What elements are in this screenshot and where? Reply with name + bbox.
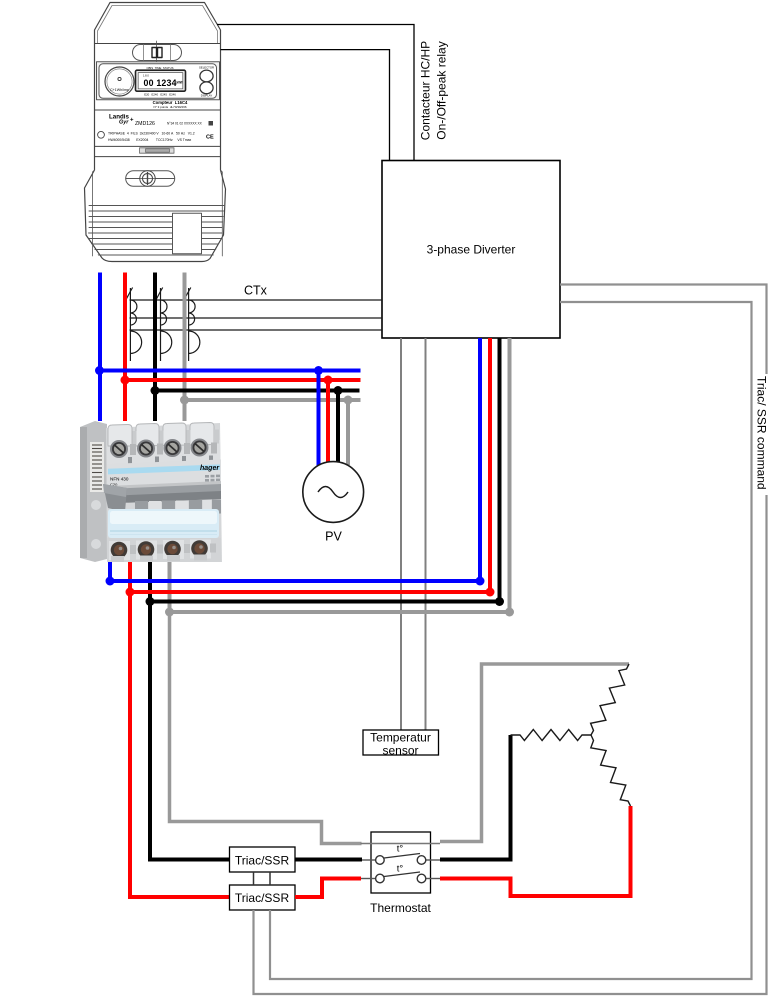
node: gray junction lower left	[165, 608, 174, 617]
Temperatur sensor box B1	[363, 730, 439, 758]
node: gray junction at meter drop	[180, 396, 189, 405]
wire: gray bus upper	[185, 398, 361, 402]
wire: blue bus upper	[99, 369, 361, 373]
svg-text:NFN 430: NFN 430	[110, 477, 129, 482]
svg-text:CTx: CTx	[244, 284, 268, 298]
heater resistor R3 (bottom right)	[591, 735, 631, 806]
svg-text:sensor: sensor	[382, 744, 418, 758]
wire: gray thermostat to heater	[440, 664, 629, 842]
node: red junction lower right	[486, 588, 495, 597]
node: blue junction at PV tap	[314, 366, 323, 375]
wire: SSR command outer loop	[254, 285, 767, 995]
svg-text:DISPLAY: DISPLAY	[201, 94, 213, 98]
wire: red bus lower	[130, 590, 490, 594]
node: red junction lower left	[126, 588, 135, 597]
wire: red drop to PV	[326, 380, 330, 463]
svg-text:Temperatur: Temperatur	[370, 731, 431, 745]
svg-text:E20 E240 E245 E246: E20 E240 E245 E246	[144, 92, 176, 96]
wire: gray drop to PV	[346, 400, 350, 465]
3-phase Diverter box U1	[382, 161, 560, 339]
thermostat capillary line	[361, 843, 441, 845]
node: black junction at meter drop	[151, 386, 160, 395]
wire: SSR command inner loop	[270, 302, 752, 979]
circuit breaker Q1 (Hager 4-pole MCB photo)	[80, 421, 222, 562]
wire: black bus lower	[150, 600, 500, 604]
wire: red breaker bottom stub	[128, 562, 132, 592]
wire: blue diverter output drop	[478, 338, 482, 581]
CT sense line 2	[130, 317, 383, 319]
wire: black phase L2 meter to breaker	[153, 273, 157, 422]
Triac/SSR box 2	[230, 885, 296, 910]
node: blue junction lower right	[476, 577, 485, 586]
svg-text:t°: t°	[397, 844, 404, 855]
svg-text:3-phase Diverter: 3-phase Diverter	[427, 243, 516, 257]
node: blue junction at meter drop	[95, 366, 104, 375]
current transformer CT2	[156, 288, 172, 362]
wire: blue phase N meter to breaker	[98, 273, 102, 422]
svg-text:OBIS TIME STATUS: OBIS TIME STATUS	[146, 66, 173, 70]
wire: link Triac boxes a	[253, 872, 255, 885]
svg-text:Gyr: Gyr	[119, 120, 129, 126]
PV source G1	[303, 462, 364, 544]
wire: black feeder to Triac/SSR 1	[150, 602, 230, 860]
wire: CT sense drop 2 to temperature sensor	[425, 338, 427, 730]
node: black junction at PV tap	[334, 386, 343, 395]
wire: black diverter output drop	[498, 338, 502, 602]
node: black junction lower right	[495, 597, 504, 606]
node: blue junction lower left	[106, 577, 115, 586]
wire: red phase L1 meter to breaker	[123, 273, 127, 422]
svg-text:CE: CE	[206, 135, 214, 141]
wire: black bus upper	[155, 389, 360, 393]
wire: gray sensor loop left	[170, 612, 362, 844]
wire: CT sense drop 1 to temperature sensor	[400, 338, 402, 730]
node: gray junction lower right	[505, 608, 514, 617]
svg-text:N°34 01 02 XXXXXX XX: N°34 01 02 XXXXXX XX	[167, 122, 203, 126]
svg-text:Contacteur HC/HP: Contacteur HC/HP	[419, 41, 433, 140]
node: black junction lower left	[146, 597, 155, 606]
svg-text:N° 3 points dL70/39/266: N° 3 points dL70/39/266	[153, 105, 186, 109]
svg-text:TRIPHASE 4 FILS 3x230/400 V: TRIPHASE 4 FILS 3x230/400 V 10-60 A 50 H…	[108, 132, 195, 136]
Thermostat box S1	[370, 832, 431, 915]
wire: blue drop to PV	[317, 371, 321, 467]
svg-text:HW4000/5438 EX2004: HW4000/5438 EX2004 TCC170Hz VS Tmax	[108, 138, 192, 142]
svg-text:Triac/SSR: Triac/SSR	[235, 854, 290, 868]
svg-text:1.8.0: 1.8.0	[143, 73, 149, 77]
thermostat switch 1 (t deg)	[362, 844, 440, 865]
svg-text:C+1Wh/imp: C+1Wh/imp	[110, 88, 129, 92]
wire: black breaker bottom stub	[148, 562, 152, 602]
svg-text:PV: PV	[325, 530, 342, 544]
svg-text:On-/Off-peak relay: On-/Off-peak relay	[435, 41, 449, 139]
heater resistor R2 (top right)	[591, 664, 629, 735]
svg-text:kWh: kWh	[177, 81, 184, 85]
wire: black drop to PV	[336, 391, 340, 463]
svg-text:hager: hager	[200, 465, 220, 472]
svg-text:Thermostat: Thermostat	[370, 901, 431, 915]
heater resistor R1 (left)	[511, 730, 592, 741]
Triac/SSR box 1	[230, 847, 296, 872]
label: Contacteur HC/HP On-/Off-peak relay	[419, 41, 449, 140]
electricity meter Landis+Gyr ZMD126	[85, 3, 227, 262]
wire: blue bus lower	[110, 579, 480, 583]
wire: blue breaker bottom stub	[108, 562, 112, 581]
label: Triac/ SSR command	[754, 374, 769, 495]
svg-text:ZMD126: ZMD126	[135, 121, 155, 127]
svg-text:SELECTOR: SELECTOR	[199, 66, 214, 70]
svg-text:Triac/ SSR command: Triac/ SSR command	[755, 376, 769, 490]
wire: gray phase L3 meter to breaker	[183, 273, 187, 422]
wire: red diverter output drop	[488, 338, 492, 592]
node: gray junction at PV tap	[344, 396, 353, 405]
wire: link Triac boxes b	[269, 872, 271, 885]
svg-text:00 1234: 00 1234	[144, 78, 177, 88]
current transformer CT3	[184, 288, 200, 362]
node: red junction at meter drop	[121, 376, 130, 385]
svg-text:t°: t°	[397, 864, 404, 875]
node: red junction at PV tap	[324, 376, 333, 385]
wire: meter to contactor (inner control line)	[221, 50, 390, 161]
wire: red thermostat to heater	[440, 806, 631, 896]
wire: black thermostat to heater	[440, 735, 511, 860]
wire: gray diverter output drop	[508, 338, 512, 612]
wire: meter to contactor (outer control line)	[217, 25, 414, 161]
wire: black Triac1 to thermostat	[295, 858, 362, 862]
wire: gray breaker bottom stub	[168, 562, 172, 612]
wire: red bus upper	[125, 378, 361, 382]
current transformer CT1	[126, 288, 142, 362]
CT sense line 1	[130, 299, 383, 301]
wire: red feeder to Triac/SSR 2	[130, 592, 230, 897]
thermostat switch 2 (t deg)	[361, 864, 440, 883]
wire: gray bus lower	[170, 610, 510, 614]
svg-text:+: +	[130, 118, 134, 124]
wire: red Triac2 to thermostat	[295, 879, 361, 898]
svg-text:Triac/SSR: Triac/SSR	[235, 891, 290, 905]
CT sense line 3	[130, 329, 383, 331]
